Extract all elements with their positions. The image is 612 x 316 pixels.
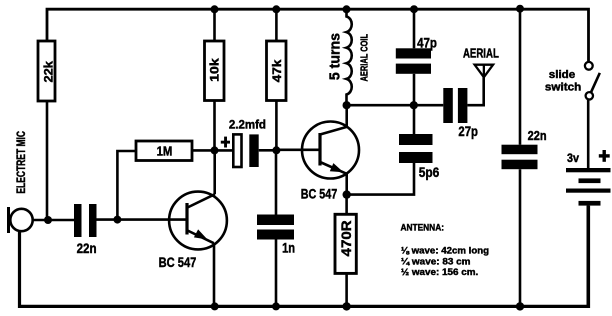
node: coil bottom / collector junction: [343, 101, 351, 109]
wire: rail to 10k: [213, 9, 216, 41]
antenna AERIAL: [463, 47, 499, 78]
wire: 22k bottom to mic node: [46, 101, 49, 220]
wire: Q1 emitter to ground rail: [213, 243, 216, 306]
wire: 2.2mfd to node D: [259, 149, 277, 152]
node: rail/47k junction: [272, 5, 280, 13]
svg-text:2.2mfd: 2.2mfd: [229, 119, 266, 131]
resistor 22k: [38, 41, 55, 101]
wire: node C to Q1 collector: [213, 150, 216, 194]
wire: node D to Q2 base: [276, 149, 320, 152]
wire: 470R to ground rail: [345, 273, 348, 306]
node E (Q2 emitter junction): [343, 190, 351, 198]
inductor L1 aerial coil 5 turns: [327, 9, 370, 105]
node D (47k / Q2 base junction): [272, 146, 280, 154]
svg-text:AERIAL COIL: AERIAL COIL: [359, 34, 370, 81]
note: antenna length text: [401, 223, 490, 278]
switch S1 slide switch: [545, 62, 600, 100]
node B (Q1 base junction): [113, 216, 121, 224]
svg-text:27p: 27p: [458, 124, 478, 139]
svg-text:AERIAL: AERIAL: [463, 47, 499, 61]
wire: tank line coil to 47p to 27p: [347, 104, 444, 107]
resistor 470R: [335, 214, 356, 273]
electret microphone MIC1: [9, 131, 33, 233]
wire: 1n to ground rail: [275, 240, 278, 307]
capacitor 22n (mic coupling): [74, 204, 97, 256]
resistor 1M: [136, 141, 192, 161]
svg-text:22n: 22n: [528, 129, 547, 143]
wire: 27p to aerial: [467, 77, 483, 105]
node A (mic output junction): [44, 216, 52, 224]
wire: 1M right to node C: [192, 149, 215, 152]
wire: top supply rail: [47, 9, 589, 62]
capacitor 1n: [257, 215, 295, 256]
transistor Q2 BC547: [301, 122, 359, 202]
wire: switch to battery: [587, 100, 590, 169]
wire: 47p bottom to tank line: [413, 74, 416, 105]
wire: rail to 47p: [413, 9, 416, 48]
node: rail/10k junction: [211, 5, 219, 13]
capacitor 47p: [396, 35, 437, 73]
svg-text:470R: 470R: [338, 220, 354, 256]
wire: battery negative to ground rail: [586, 206, 589, 306]
wire: 5p6 bottom to node E: [347, 163, 414, 195]
svg-text:47p: 47p: [417, 35, 437, 50]
svg-text:22n: 22n: [77, 240, 97, 256]
svg-text:¼ wave: 83 cm: ¼ wave: 83 cm: [401, 256, 471, 267]
svg-text:ANTENNA:: ANTENNA:: [401, 223, 445, 234]
wire: bottom ground rail: [20, 206, 589, 307]
svg-text:½ wave: 156 cm.: ½ wave: 156 cm.: [401, 267, 478, 278]
wire: node C to 2.2mfd: [215, 149, 234, 152]
capacitor 27p: [443, 88, 478, 139]
svg-text:10k: 10k: [208, 58, 222, 82]
resistor 10k: [205, 41, 225, 101]
svg-text:5p6: 5p6: [419, 164, 440, 180]
svg-text:1n: 1n: [282, 240, 295, 256]
node: Q1 emitter ground junction: [211, 302, 219, 310]
node: 22n ground junction: [516, 302, 524, 310]
svg-text:⅛ wave: 42cm long: ⅛ wave: 42cm long: [401, 246, 489, 257]
wire: 22n to Q1 base: [97, 218, 188, 221]
capacitor 22n (supply decoupling): [502, 129, 547, 169]
svg-text:ELECTRET MIC: ELECTRET MIC: [16, 131, 28, 194]
svg-text:1M: 1M: [157, 145, 173, 159]
wire: 22n to ground rail: [519, 169, 522, 306]
svg-text:BC 547: BC 547: [159, 254, 197, 270]
wire: 1M feedback left leg: [117, 151, 136, 220]
wire: Q2 collector to coil node: [345, 105, 348, 127]
wire: rail to 22n: [519, 9, 522, 145]
node: 470R ground junction: [342, 302, 350, 310]
svg-text:3v: 3v: [567, 151, 579, 165]
wire: node E to 470R: [345, 195, 348, 215]
wire: Q2 emitter down to node E: [345, 174, 348, 195]
node: rail/47p junction: [410, 5, 418, 13]
svg-text:5 turns: 5 turns: [327, 33, 343, 80]
capacitor 5p6: [399, 134, 439, 180]
svg-text:switch: switch: [545, 82, 581, 94]
svg-text:slide: slide: [549, 69, 575, 81]
svg-text:47k: 47k: [270, 59, 284, 82]
node: rail/coil junction: [343, 5, 351, 13]
wire: node D down to 1n: [275, 150, 278, 215]
node: 47p bottom junction: [410, 101, 418, 109]
node C (Q1 collector junction): [211, 146, 219, 154]
node: 1n ground junction: [272, 302, 280, 310]
wire: rail to 47k: [275, 9, 278, 41]
svg-text:BC 547: BC 547: [301, 185, 338, 201]
resistor 47k: [267, 41, 287, 101]
capacitor 2.2mfd electrolytic: [221, 119, 266, 167]
wire: 10k bottom to node C: [213, 101, 216, 151]
transistor Q1 BC547: [159, 192, 227, 271]
battery BT1 3v: [566, 150, 611, 206]
wire: 47k bottom to node D: [275, 101, 278, 151]
wire: mic to node A: [33, 219, 74, 222]
wire: tank node to 5p6 top: [413, 105, 416, 134]
svg-text:22k: 22k: [43, 60, 55, 82]
node: rail/22n junction: [516, 5, 524, 13]
